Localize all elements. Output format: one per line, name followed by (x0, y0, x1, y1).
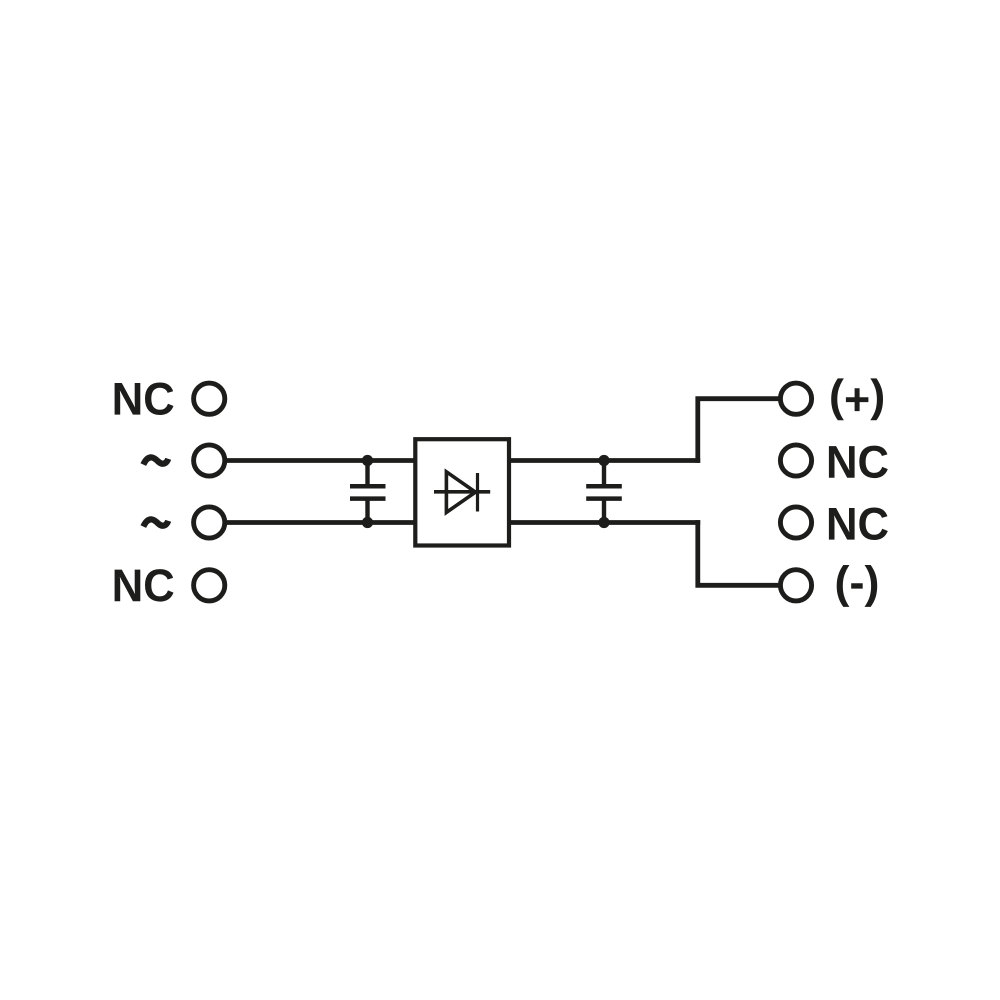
diode V1 triangle (446, 472, 475, 513)
wire: input L2 (~ terminal row 3) to rectifier box (209, 520, 415, 525)
wire: input L1 (~ terminal row 2) to rectifier box (209, 458, 415, 463)
rectifier module box V1 (415, 439, 509, 545)
terminal circle right row 3 (NC) (780, 507, 811, 538)
terminal circle left row 1 (NC) (194, 383, 225, 414)
wire: rectifier box output top to corner node (509, 458, 700, 463)
capacitor C1 plate bottom (350, 496, 386, 501)
capacitor C2 lead top (602, 461, 606, 488)
label NC left row 4 (115, 569, 174, 602)
terminal circle right row 2 (NC) (780, 445, 811, 476)
label (+) right row 1 (831, 378, 883, 420)
terminal circle right row 4 (-) (780, 570, 811, 601)
junction dot C1 top (362, 455, 373, 466)
capacitor C1 lead top (365, 461, 369, 488)
capacitor C1 plate top (350, 484, 386, 489)
label (-) right row 4 (837, 565, 878, 607)
terminal circle left row 3 (~) (194, 507, 225, 538)
wire: vertical riser and run to (+) terminal row 1 (698, 399, 780, 463)
capacitor C1 lead bottom (365, 498, 369, 523)
terminal circle left row 2 (~) (194, 445, 225, 476)
terminal circle left row 4 (NC) (194, 570, 225, 601)
capacitor C2 plate top (586, 484, 622, 489)
diode V1 anode line (434, 490, 490, 494)
capacitor C2 plate bottom (586, 496, 622, 501)
capacitor C2 lead bottom (602, 498, 606, 523)
label ~ row 3 (143, 519, 168, 526)
wire: vertical drop and run to (-) terminal row 4 (698, 520, 780, 585)
wire: rectifier box output bottom to corner node (509, 520, 700, 525)
diode V1 cathode bar (476, 473, 479, 512)
terminal circle right row 1 (+) (780, 383, 811, 414)
junction dot C1 bottom (362, 517, 373, 528)
label NC right row 2 (829, 446, 888, 479)
label NC right row 3 (829, 508, 888, 541)
junction dot C2 top (598, 455, 609, 466)
label NC left row 1 (115, 383, 174, 416)
label ~ row 2 (143, 457, 168, 464)
junction dot C2 bottom (598, 517, 609, 528)
